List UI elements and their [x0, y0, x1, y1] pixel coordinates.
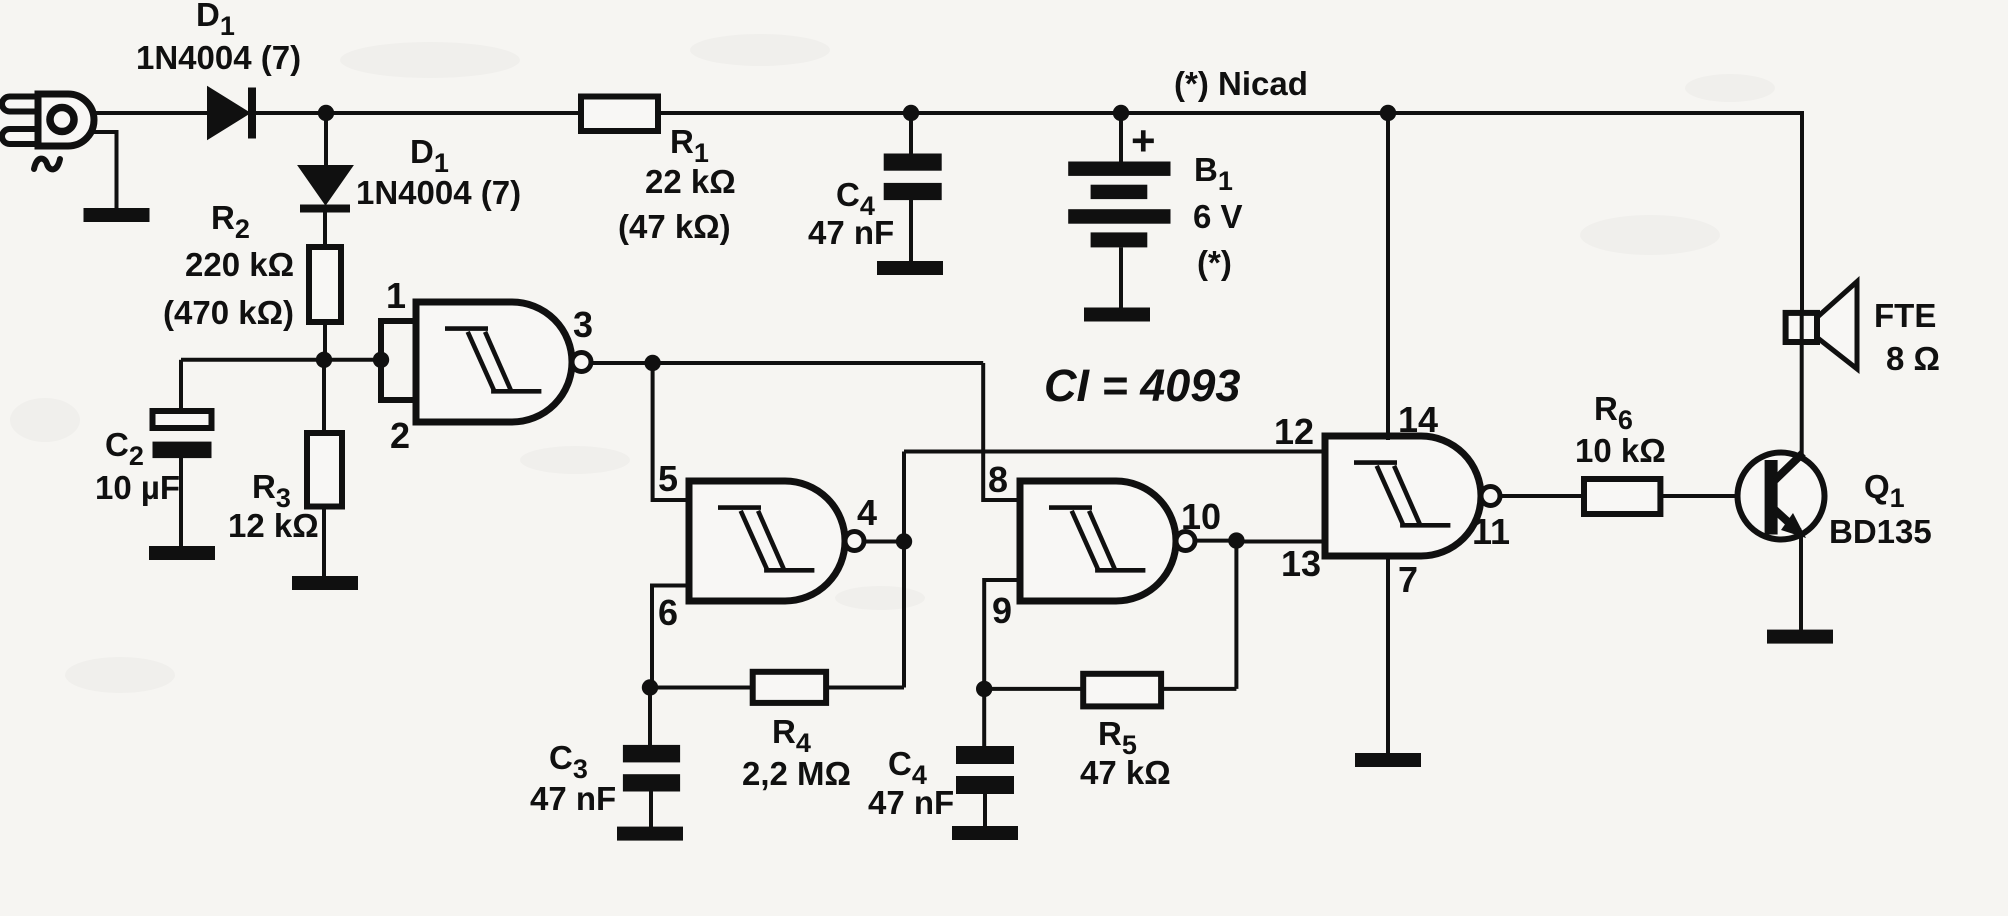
- svg-text:+: +: [1131, 117, 1156, 164]
- wire R3 to ground: [322, 507, 326, 578]
- svg-text:C2: C2: [105, 426, 144, 471]
- node dot B: [316, 352, 332, 368]
- wire R6 to Q1 base: [1660, 494, 1765, 498]
- node dot A: [318, 105, 334, 121]
- wire node A down: [324, 113, 328, 166]
- svg-text:R2: R2: [211, 199, 250, 244]
- wire U1a output: [591, 361, 983, 365]
- ground (C4 timing): [952, 826, 1018, 840]
- wire node G to C3: [648, 688, 652, 747]
- svg-text:(*) Nicad: (*) Nicad: [1174, 65, 1308, 102]
- svg-text:2: 2: [390, 415, 410, 456]
- svg-text:FTE: FTE: [1874, 297, 1936, 334]
- svg-text:2,2 MΩ: 2,2 MΩ: [742, 755, 851, 792]
- svg-text:6: 6: [658, 592, 678, 633]
- wire node E to node F: [1121, 111, 1388, 115]
- svg-text:(*): (*): [1197, 244, 1232, 281]
- wire plug to D1: [92, 111, 208, 115]
- svg-text:D1: D1: [410, 133, 449, 178]
- svg-text:12 kΩ: 12 kΩ: [228, 507, 319, 544]
- svg-text:BD135: BD135: [1829, 513, 1932, 550]
- wire node B to R3: [322, 360, 326, 433]
- op-amp U1b nand gate: [689, 481, 864, 601]
- svg-text:14: 14: [1398, 399, 1438, 440]
- svg-text:Q1: Q1: [1864, 468, 1905, 513]
- op-amp U1d nand gate: [1325, 436, 1500, 556]
- wire node D to C4: [909, 113, 913, 155]
- svg-text:220 kΩ: 220 kΩ: [185, 246, 294, 283]
- wire B1 to ground: [1119, 247, 1123, 309]
- svg-text:12: 12: [1274, 411, 1314, 452]
- node dot C: [644, 355, 660, 371]
- svg-text:8: 8: [988, 459, 1008, 500]
- ground (R3): [292, 576, 358, 590]
- node dot J: [1228, 532, 1244, 548]
- wire C3 to ground: [649, 792, 653, 829]
- svg-text:6 V: 6 V: [1193, 198, 1243, 235]
- wire Q1 collector to speaker: [1800, 342, 1804, 458]
- wire riser x1236: [1234, 541, 1238, 689]
- wire pin9 to node I: [984, 580, 1020, 689]
- svg-text:1N4004 (7): 1N4004 (7): [136, 39, 301, 76]
- svg-text:11: 11: [1472, 511, 1510, 552]
- svg-text:8 Ω: 8 Ω: [1886, 340, 1940, 377]
- node dot H: [896, 533, 912, 549]
- ground (C3): [617, 827, 683, 841]
- svg-text:47 nF: 47 nF: [808, 214, 894, 251]
- svg-text:10: 10: [1181, 496, 1221, 537]
- resistor R2: [309, 247, 341, 322]
- ground (pin 7): [1355, 753, 1421, 767]
- wire R2 to node B: [323, 322, 327, 360]
- svg-text:5: 5: [658, 458, 678, 499]
- capacitor C4 (timing): [956, 746, 1014, 794]
- svg-text:C3: C3: [549, 739, 588, 784]
- svg-text:1N4004 (7): 1N4004 (7): [356, 174, 521, 211]
- wire U1b output: [864, 540, 904, 544]
- wire node C to pin5: [653, 363, 689, 500]
- node dot E: [1113, 105, 1129, 121]
- svg-text:10 kΩ: 10 kΩ: [1575, 432, 1666, 469]
- svg-text:3: 3: [573, 304, 593, 345]
- wire to pin 12: [904, 450, 1325, 454]
- wire to C2: [179, 360, 183, 412]
- resistor R3: [307, 433, 342, 507]
- wire node I to R5: [984, 687, 1083, 691]
- resistor R1: [581, 97, 658, 132]
- wire pin6 to node G: [652, 586, 689, 688]
- wire pin 7 to ground: [1386, 553, 1390, 754]
- wire node G to R4: [650, 686, 753, 690]
- wire node F to right corner and speaker: [1388, 113, 1802, 314]
- svg-text:R1: R1: [670, 123, 709, 168]
- node dot G: [642, 679, 658, 695]
- gate U1a input bracket: [378, 321, 416, 401]
- wire node B horizontal: [181, 358, 381, 362]
- node dot D: [903, 105, 919, 121]
- diode D1 (shunt): [299, 166, 352, 213]
- svg-text:10 µF: 10 µF: [95, 469, 180, 506]
- ground (C2): [149, 546, 215, 560]
- svg-text:D1: D1: [196, 0, 235, 41]
- svg-text:47 nF: 47 nF: [530, 780, 616, 817]
- ground (Q1): [1767, 630, 1833, 644]
- wire D1 to R1: [256, 111, 581, 115]
- wire C4 to ground: [909, 200, 913, 262]
- node dot F: [1380, 105, 1396, 121]
- resistor R4: [753, 672, 826, 703]
- svg-text:B1: B1: [1194, 151, 1233, 196]
- capacitor C3: [623, 745, 680, 792]
- svg-text:9: 9: [992, 590, 1012, 631]
- resistor R6: [1584, 479, 1660, 514]
- transistor Q1: [1738, 453, 1825, 540]
- capacitor C2: [153, 411, 212, 458]
- svg-text:13: 13: [1281, 543, 1321, 584]
- wire node D to node E: [911, 111, 1121, 115]
- op-amp U1a nand gate: [416, 302, 591, 422]
- resistor R5: [1083, 674, 1161, 707]
- wire pin3 net to pin 8: [983, 363, 1020, 500]
- ground (plug): [84, 208, 150, 222]
- wire U1c output: [1195, 539, 1236, 543]
- speaker FTE: [1786, 282, 1857, 369]
- svg-text:22 kΩ: 22 kΩ: [645, 163, 736, 200]
- svg-text:47 nF: 47 nF: [868, 784, 954, 821]
- node dot I: [976, 681, 992, 697]
- wire R4 to riser: [826, 686, 904, 690]
- wire C2 to ground: [179, 458, 183, 547]
- svg-text:7: 7: [1398, 559, 1418, 600]
- node dot B2: [373, 352, 389, 368]
- wire node J to pin 13: [1236, 540, 1325, 544]
- svg-text:(470 kΩ): (470 kΩ): [163, 294, 294, 331]
- wire node I to C4b: [982, 689, 986, 747]
- ground (C4 supply): [877, 261, 943, 275]
- wire riser x904: [902, 452, 906, 688]
- wire pin 14: [1386, 113, 1390, 440]
- wire R5 to riser: [1161, 687, 1236, 691]
- svg-text:CI = 4093: CI = 4093: [1044, 360, 1240, 411]
- svg-text:(47 kΩ): (47 kΩ): [618, 208, 731, 245]
- wire node E to B1: [1119, 113, 1123, 162]
- svg-text:1: 1: [386, 275, 406, 316]
- svg-text:4: 4: [857, 492, 877, 533]
- wire D1 to R2: [323, 212, 327, 247]
- svg-text:R6: R6: [1594, 390, 1633, 435]
- svg-text:47 kΩ: 47 kΩ: [1080, 754, 1171, 791]
- wire C4b to ground: [983, 794, 987, 827]
- svg-text:R4: R4: [772, 713, 811, 758]
- op-amp U1c nand gate: [1020, 481, 1195, 601]
- wire U1d output to R6: [1500, 494, 1584, 498]
- AC plug P1: [2, 94, 94, 169]
- wire plug lower to ground: [90, 132, 117, 210]
- ground (B1): [1084, 308, 1150, 322]
- battery B1: [1068, 162, 1170, 248]
- diode D1 (series): [208, 88, 256, 139]
- wire Q1 emitter to ground: [1799, 533, 1803, 631]
- wire R1 to node D: [658, 111, 911, 115]
- capacitor C4 (supply): [884, 154, 942, 201]
